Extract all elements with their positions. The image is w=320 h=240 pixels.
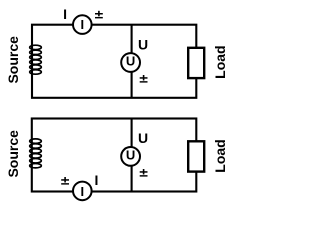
svg-text:U: U bbox=[138, 37, 148, 53]
load resistor rectangle (top circuit) bbox=[188, 48, 204, 78]
label plus-minus of ammeter (top circuit) bbox=[95, 11, 103, 19]
svg-text:U: U bbox=[126, 54, 135, 69]
voltmeter meter circle (bottom circuit) bbox=[121, 147, 140, 166]
svg-text:I: I bbox=[80, 17, 84, 32]
svg-text:U: U bbox=[138, 130, 148, 146]
svg-text:Source: Source bbox=[5, 36, 21, 84]
label plus-minus of voltmeter (bottom circuit) bbox=[140, 169, 148, 177]
svg-text:I: I bbox=[95, 172, 99, 188]
svg-text:I: I bbox=[80, 184, 84, 199]
voltmeter meter circle (top circuit) bbox=[121, 53, 140, 72]
load resistor rectangle (bottom circuit) bbox=[188, 141, 204, 171]
svg-text:Load: Load bbox=[212, 139, 228, 172]
svg-text:U: U bbox=[126, 148, 135, 163]
inductor source coil (bottom circuit) bbox=[30, 139, 42, 168]
svg-text:Source: Source bbox=[5, 130, 21, 178]
wire loop of top circuit bbox=[32, 25, 196, 98]
wire loop of bottom circuit bbox=[32, 119, 197, 192]
ammeter meter circle (top circuit) bbox=[73, 15, 92, 34]
inductor source coil (top circuit) bbox=[30, 45, 42, 74]
ammeter meter circle (bottom circuit) bbox=[73, 182, 92, 201]
wire voltmeter branch (bottom circuit) bbox=[131, 119, 133, 192]
label plus-minus of voltmeter (top circuit) bbox=[140, 75, 148, 83]
svg-text:I: I bbox=[63, 6, 67, 22]
wire voltmeter branch (top circuit) bbox=[131, 25, 133, 98]
label plus-minus of ammeter (bottom circuit) bbox=[61, 177, 69, 185]
svg-text:Load: Load bbox=[212, 45, 228, 78]
